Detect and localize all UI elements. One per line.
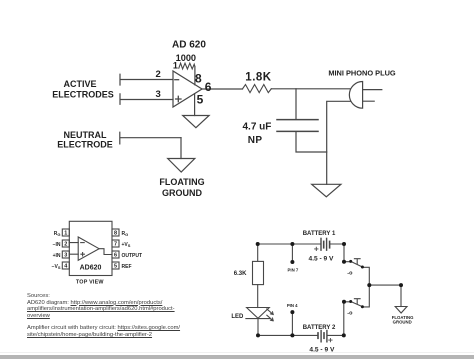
svg-text:4.7 uF: 4.7 uF (243, 122, 272, 133)
svg-text:NEUTRAL: NEUTRAL (64, 130, 107, 140)
svg-text:AD 620: AD 620 (172, 39, 206, 50)
svg-text:3: 3 (64, 253, 67, 259)
svg-text:-o: -o (347, 311, 353, 317)
svg-text:6.3K: 6.3K (234, 271, 247, 277)
svg-text:+VS: +VS (122, 242, 131, 248)
svg-text:PIN 7: PIN 7 (288, 267, 299, 272)
svg-text:GROUND: GROUND (393, 319, 412, 324)
svg-text:FLOATING: FLOATING (159, 177, 204, 187)
svg-text:8: 8 (195, 72, 202, 86)
svg-text:5: 5 (197, 92, 204, 106)
svg-text:1.8K: 1.8K (245, 72, 271, 84)
svg-text:−IN: −IN (53, 242, 61, 248)
svg-text:ACTIVE: ACTIVE (63, 79, 96, 89)
svg-text:REF: REF (122, 264, 132, 270)
svg-text:RG: RG (122, 231, 129, 237)
svg-text:LED: LED (231, 314, 244, 320)
svg-text:TOP VIEW: TOP VIEW (76, 279, 104, 285)
svg-text:8: 8 (114, 231, 117, 237)
svg-text:BATTERY 2: BATTERY 2 (303, 325, 336, 331)
svg-text:1: 1 (64, 231, 67, 237)
svg-text:3: 3 (156, 89, 161, 100)
svg-text:−VS: −VS (52, 264, 61, 270)
svg-text:ELECTRODES: ELECTRODES (52, 90, 114, 100)
svg-text:5: 5 (114, 264, 117, 270)
svg-text:NP: NP (248, 135, 263, 146)
svg-text:PIN 4: PIN 4 (287, 303, 298, 308)
svg-text:OUTPUT: OUTPUT (122, 253, 143, 259)
svg-text:4.5 - 9 V: 4.5 - 9 V (309, 256, 335, 263)
svg-text:2: 2 (64, 242, 67, 248)
svg-text:7: 7 (114, 242, 117, 248)
svg-text:ELECTRODE: ELECTRODE (57, 140, 113, 150)
svg-text:6: 6 (114, 253, 117, 259)
svg-text:MINI PHONO PLUG: MINI PHONO PLUG (328, 68, 396, 77)
svg-text:GROUND: GROUND (162, 188, 202, 198)
svg-text:+IN: +IN (53, 253, 61, 259)
svg-text:BATTERY 1: BATTERY 1 (303, 231, 336, 237)
svg-text:2: 2 (156, 69, 161, 80)
svg-text:6: 6 (205, 80, 212, 94)
svg-text:1000: 1000 (176, 53, 196, 63)
svg-text:RG: RG (54, 231, 61, 237)
svg-text:1: 1 (173, 60, 178, 70)
svg-text:-o: -o (347, 271, 353, 277)
svg-text:AD620: AD620 (80, 265, 102, 272)
